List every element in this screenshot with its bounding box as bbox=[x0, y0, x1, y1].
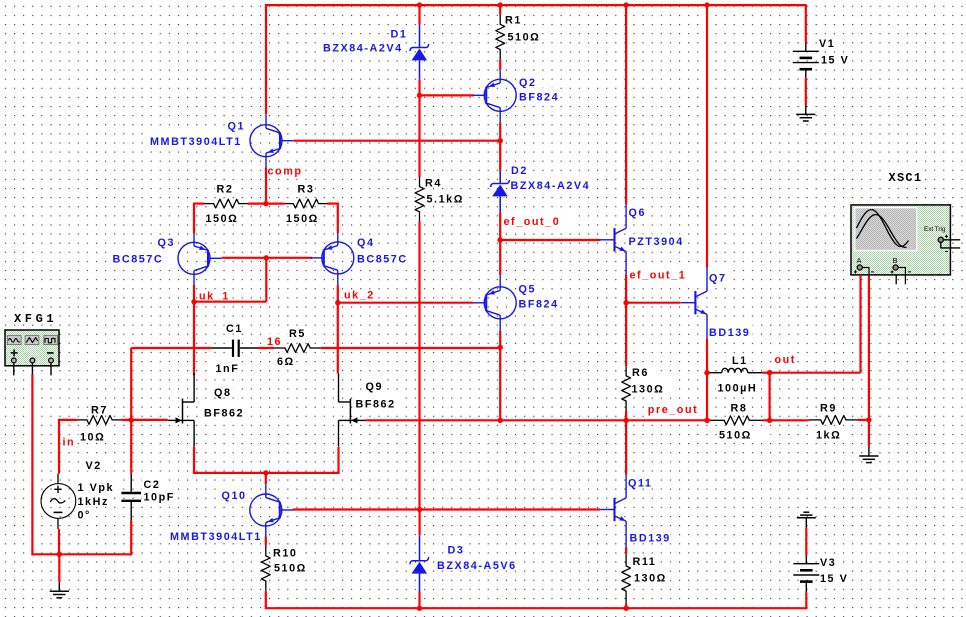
wire V3 minus to bottom rail corner bbox=[805, 592, 807, 609]
svg-text:R7: R7 bbox=[91, 404, 108, 416]
wire in: corner down to V2 plus bbox=[58, 419, 60, 474]
label MMBT3904LT1 bbox=[169, 529, 263, 544]
wire R2 left lead bbox=[194, 203, 205, 205]
svg-text:5.1kΩ: 5.1kΩ bbox=[427, 194, 464, 206]
label BC857C bbox=[111, 251, 177, 266]
wire Q7 emitter down through L1 tap to R8 junction bbox=[706, 339, 708, 421]
AC source V2 bbox=[41, 474, 76, 529]
zener diode D2 bbox=[491, 171, 510, 212]
wire R3 corner down to Q4 emitter bbox=[337, 203, 339, 234]
ground V1 bbox=[796, 105, 815, 121]
wire R9 right lead bbox=[858, 419, 869, 421]
label Q9 bbox=[364, 378, 385, 393]
wire Q10 emitter to R10 bbox=[265, 537, 267, 546]
junction ef_out_1/Q7 base bbox=[623, 300, 628, 305]
transistor Q7 bbox=[681, 268, 707, 339]
label Q4 bbox=[356, 236, 378, 250]
svg-text:C1: C1 bbox=[226, 323, 243, 335]
label XSC1 bbox=[886, 170, 925, 186]
wire R7 to Q8 gate bbox=[121, 419, 167, 421]
svg-text:510Ω: 510Ω bbox=[274, 562, 307, 574]
wire C2 bottom to ground rail bbox=[130, 521, 132, 556]
label Q6 bbox=[627, 205, 647, 219]
wire rail to V1 bbox=[805, 4, 807, 43]
label pre_out bbox=[646, 401, 702, 420]
label ef_out_1 bbox=[628, 269, 700, 287]
wire Q3 base to Q4 base bbox=[222, 257, 312, 259]
svg-text:uk_1: uk_1 bbox=[199, 290, 230, 302]
svg-text:Q1: Q1 bbox=[228, 120, 246, 132]
wire Q1 base to Q2 collector bbox=[294, 140, 501, 142]
wire R3 right lead bbox=[328, 203, 338, 205]
transistor Q2 bbox=[473, 70, 517, 122]
wire in corner to R7 bbox=[59, 419, 78, 421]
label BF824 bbox=[517, 295, 560, 310]
svg-text:ef_out_1: ef_out_1 bbox=[630, 269, 687, 281]
svg-text:PZT3904: PZT3904 bbox=[629, 236, 684, 248]
label in bbox=[61, 436, 75, 448]
resistor R5 bbox=[274, 344, 321, 353]
label 150Ω bbox=[285, 211, 323, 226]
svg-text:10Ω: 10Ω bbox=[80, 432, 105, 444]
label ef_out_0 bbox=[502, 213, 575, 232]
svg-text:BF824: BF824 bbox=[519, 92, 559, 104]
svg-text:100µH: 100µH bbox=[718, 383, 758, 395]
wire Q9 gate to pre_out row bbox=[365, 419, 711, 421]
label 130Ω bbox=[633, 570, 668, 584]
transistor Q6 bbox=[600, 205, 626, 275]
wire R8 right to R9 left (out riser junction) bbox=[763, 419, 809, 421]
wire ef_out_0: D2 anode to Q5 emitter bbox=[499, 212, 501, 275]
junction uk_1 bbox=[191, 299, 196, 304]
wire net 16 between C1 and R5 bbox=[258, 347, 275, 349]
wire ground stub bbox=[58, 554, 60, 582]
wire Q6 emitter ef_out_1 down to R6 bbox=[625, 274, 627, 366]
inductor L1 bbox=[707, 368, 762, 372]
junction rail/R1 bbox=[498, 2, 503, 7]
wire ef_out_1 to Q7 base bbox=[626, 302, 681, 304]
label 510Ω bbox=[273, 560, 309, 574]
function generator XFG1 bbox=[5, 330, 59, 375]
wire uk_2 to Q5 base bbox=[338, 302, 473, 304]
label D3 bbox=[446, 542, 468, 557]
svg-text:1kHz: 1kHz bbox=[78, 496, 109, 508]
svg-text:D1: D1 bbox=[391, 29, 408, 41]
junction rail/Q6 bbox=[623, 2, 628, 7]
svg-text:Ext Trig: Ext Trig bbox=[924, 226, 946, 233]
svg-text:Q5: Q5 bbox=[519, 284, 537, 296]
wire +15V top rail bbox=[265, 4, 806, 6]
resistor R11 bbox=[622, 554, 631, 604]
junction Q7 emitter/L1 bbox=[704, 370, 709, 375]
svg-text:A: A bbox=[857, 256, 862, 265]
label Q2 bbox=[518, 74, 539, 90]
wire V1 minus to ground bbox=[805, 78, 807, 105]
wire Q2 base bbox=[420, 94, 474, 96]
resistor R1 bbox=[496, 15, 505, 60]
junction rail/D1 bbox=[417, 2, 422, 7]
wire Q2 collector to D2 cathode bbox=[499, 122, 501, 171]
junction rail/Q7 bbox=[704, 2, 709, 7]
svg-text:BD139: BD139 bbox=[630, 532, 671, 544]
ground V3 (inverted) bbox=[797, 512, 816, 527]
label 6Ω bbox=[276, 354, 297, 368]
label Q1 bbox=[226, 117, 247, 132]
label 15 V bbox=[819, 569, 849, 586]
svg-text:Q2: Q2 bbox=[519, 77, 537, 89]
label 10Ω bbox=[79, 429, 107, 443]
svg-text:130Ω: 130Ω bbox=[632, 384, 665, 396]
svg-text:1kΩ: 1kΩ bbox=[816, 430, 841, 442]
svg-text:150Ω: 150Ω bbox=[206, 213, 239, 225]
svg-text:R5: R5 bbox=[289, 328, 306, 340]
junction Q3/Q4 bases bbox=[264, 255, 269, 260]
junction base row/D3 bbox=[417, 507, 422, 512]
wire Q9 source to tail bbox=[337, 447, 339, 474]
wire V2 minus to ground rail bbox=[58, 529, 60, 554]
label V2 bbox=[84, 457, 107, 472]
label R1 bbox=[504, 15, 522, 27]
label uk_1 bbox=[198, 290, 230, 305]
label BD139 bbox=[628, 530, 671, 544]
wire out riser to R8 right junction bbox=[768, 373, 770, 421]
transistor Q3 bbox=[178, 234, 222, 286]
resistor R7 bbox=[78, 416, 122, 425]
wire XFG1 common down bbox=[31, 375, 33, 556]
wire base-row junction to D3 cathode bbox=[419, 510, 421, 536]
svg-text:Q8: Q8 bbox=[214, 387, 232, 399]
label D1 bbox=[389, 27, 409, 41]
label R5 bbox=[288, 326, 308, 340]
wire out: L1 to scope riser bbox=[770, 372, 861, 374]
label R6 bbox=[631, 366, 656, 380]
capacitor C1 bbox=[212, 340, 258, 357]
wire node comp between R2 and R3 bbox=[248, 203, 284, 205]
label uk_2 bbox=[343, 289, 375, 304]
wire rail to Q7 collector bbox=[706, 4, 708, 268]
junction R8/R9/out riser bbox=[767, 418, 772, 423]
wire C2 top to R7 junction bbox=[130, 420, 132, 474]
svg-text:R10: R10 bbox=[273, 547, 297, 559]
label out bbox=[773, 353, 796, 367]
wire tail junction to Q10 collector bbox=[265, 473, 267, 484]
svg-text:V3: V3 bbox=[820, 557, 836, 569]
wire D1 anode to R4 top (node to Q2 base junction) bbox=[418, 79, 420, 177]
label 5.1kΩ bbox=[425, 193, 464, 206]
label R7 bbox=[90, 402, 110, 416]
label BD139 bbox=[708, 325, 753, 340]
svg-text:MMBT3904LT1: MMBT3904LT1 bbox=[150, 136, 242, 148]
label R4 bbox=[424, 177, 444, 190]
junction bottom rail/D3 bbox=[417, 606, 422, 611]
junction Q1 base bbox=[498, 138, 503, 143]
wire R10 to bottom rail corner bbox=[265, 591, 267, 609]
battery V3 bbox=[793, 555, 819, 592]
wire uk_2 Q4 collector down to Q9 drain bbox=[337, 285, 339, 373]
svg-text:B: B bbox=[893, 256, 898, 265]
label Q3 bbox=[156, 235, 178, 249]
junction R9/scope A- bbox=[866, 417, 871, 422]
label BF862 bbox=[203, 404, 249, 419]
wire R6 bottom to pre_out junction to Q11 collector bbox=[625, 411, 627, 475]
svg-text:ef_out_0: ef_out_0 bbox=[504, 216, 561, 228]
capacitor C2 bbox=[121, 474, 141, 521]
label 15 V bbox=[820, 53, 850, 66]
label C1 bbox=[225, 320, 245, 335]
battery V1 bbox=[793, 43, 819, 78]
oscilloscope XSC1 bbox=[851, 205, 960, 284]
resistor R8 bbox=[711, 416, 763, 425]
resistor R4 bbox=[415, 177, 424, 221]
junction uk_2 bbox=[335, 300, 340, 305]
svg-text:D3: D3 bbox=[448, 544, 465, 556]
svg-text:R9: R9 bbox=[820, 403, 837, 415]
junction bottom rail/R11 bbox=[623, 606, 628, 611]
wire R5 to Q5 collector junction bbox=[321, 347, 500, 349]
wire tail rail bbox=[194, 472, 339, 474]
svg-text:Q10: Q10 bbox=[222, 490, 247, 502]
svg-text:15 V: 15 V bbox=[820, 573, 848, 585]
wire uk_1 horizontal bbox=[194, 301, 266, 303]
label Q5 bbox=[517, 280, 539, 296]
label 100µH bbox=[716, 379, 760, 395]
wire scope A- down to R9/ground bbox=[868, 276, 870, 447]
svg-text:R3: R3 bbox=[298, 183, 315, 195]
svg-text:R6: R6 bbox=[632, 367, 649, 379]
wire R11 to bottom rail bbox=[625, 603, 627, 608]
label BZX84-A5V6 bbox=[436, 558, 522, 573]
transistor Q5 bbox=[473, 275, 517, 330]
label 1nF bbox=[214, 360, 240, 375]
svg-text:BF824: BF824 bbox=[519, 298, 559, 310]
svg-text:Q6: Q6 bbox=[629, 207, 647, 219]
transistor Q10 bbox=[250, 484, 294, 537]
resistor R3 bbox=[284, 199, 327, 208]
label BF862 bbox=[354, 396, 401, 411]
label R11 bbox=[631, 555, 657, 568]
label R8 bbox=[729, 401, 752, 415]
label R3 bbox=[296, 182, 315, 196]
svg-text:R4: R4 bbox=[425, 177, 442, 189]
label D2 bbox=[510, 164, 530, 177]
label BZX84-A2V4 bbox=[509, 176, 593, 192]
svg-text:1nF: 1nF bbox=[216, 363, 240, 375]
svg-text:XSC1: XSC1 bbox=[889, 171, 923, 185]
JFET Q8 bbox=[168, 373, 194, 446]
junction pre_out/R6 bbox=[623, 418, 628, 423]
junction pre_out/R8 bbox=[704, 418, 709, 423]
label R10 bbox=[272, 546, 299, 560]
wire uk_1 Q3 collector down to Q8 drain bbox=[193, 285, 195, 375]
label Q11 bbox=[627, 475, 654, 490]
wire rail to Q1 collector bbox=[265, 4, 267, 114]
label L1 bbox=[731, 354, 749, 367]
junction out/L1 bbox=[767, 370, 772, 375]
wire L1 right lead bbox=[762, 372, 769, 374]
svg-text:L1: L1 bbox=[732, 355, 748, 367]
svg-text:BC857C: BC857C bbox=[357, 254, 408, 266]
JFET Q9 bbox=[339, 373, 366, 446]
svg-text:BD139: BD139 bbox=[709, 327, 750, 339]
label Q7 bbox=[708, 270, 729, 285]
wire ground rail XFG1 to C2 bbox=[32, 553, 131, 555]
wire Q10 base to Q11 base bbox=[293, 508, 600, 510]
svg-text:10pF: 10pF bbox=[144, 491, 175, 503]
label 1 Vpk bbox=[76, 479, 116, 495]
svg-text:16: 16 bbox=[267, 336, 282, 348]
svg-text:BZX84-A2V4: BZX84-A2V4 bbox=[511, 180, 591, 192]
svg-text:V2: V2 bbox=[86, 460, 102, 472]
resistor R6 bbox=[622, 366, 631, 410]
svg-text:BZX84-A2V4: BZX84-A2V4 bbox=[323, 42, 403, 54]
wire rail to Q6 collector bbox=[625, 4, 627, 205]
wire R4 bottom long vertical to base-row junction bbox=[418, 221, 420, 509]
svg-text:pre_out: pre_out bbox=[648, 404, 698, 416]
label 10pF bbox=[142, 488, 177, 504]
wire Q5 collector down to gate row bbox=[499, 330, 501, 420]
svg-text:510Ω: 510Ω bbox=[508, 32, 541, 44]
resistor R2 bbox=[205, 199, 248, 208]
junction comp R2/R3 bbox=[263, 201, 268, 206]
label MMBT3904LT1 bbox=[149, 132, 248, 148]
zener diode D3 bbox=[410, 535, 429, 591]
wire rail to R1 bbox=[499, 4, 501, 15]
svg-text:130Ω: 130Ω bbox=[634, 572, 667, 584]
transistor Q11 bbox=[600, 475, 626, 548]
wire ef_out_0 to Q6 base bbox=[500, 239, 600, 241]
label C2 bbox=[142, 476, 162, 491]
svg-text:uk_2: uk_2 bbox=[344, 289, 375, 301]
label Q8 bbox=[213, 384, 234, 399]
svg-text:BF862: BF862 bbox=[356, 399, 396, 411]
junction Q2 base bbox=[417, 93, 422, 98]
junction tail/Q10 bbox=[263, 470, 268, 475]
svg-text:MMBT3904LT1: MMBT3904LT1 bbox=[170, 531, 262, 543]
svg-text:Q11: Q11 bbox=[628, 477, 652, 489]
label R2 bbox=[215, 182, 235, 196]
wire Q11 emitter to R11 bbox=[625, 548, 627, 554]
svg-text:comp: comp bbox=[268, 166, 303, 178]
svg-text:Q7: Q7 bbox=[709, 272, 727, 284]
svg-text:Q3: Q3 bbox=[158, 237, 176, 249]
label BC857C bbox=[356, 251, 423, 266]
label 130Ω bbox=[630, 379, 673, 396]
junction gate row/Q5 bbox=[498, 418, 503, 423]
wire rail to D1 cathode bbox=[418, 4, 420, 25]
resistor R10 bbox=[261, 546, 270, 592]
svg-text:in: in bbox=[63, 436, 76, 448]
svg-text:6Ω: 6Ω bbox=[277, 356, 295, 368]
wire base junction riser to uk_1 bbox=[265, 258, 267, 302]
wire scope A+ down to out bbox=[859, 276, 861, 373]
svg-text:Q9: Q9 bbox=[366, 381, 384, 393]
svg-text:1 Vpk: 1 Vpk bbox=[78, 482, 115, 494]
label 150Ω bbox=[204, 211, 242, 226]
label R9 bbox=[819, 401, 843, 415]
svg-text:Q4: Q4 bbox=[357, 237, 375, 249]
svg-text:R11: R11 bbox=[633, 556, 657, 568]
label Q10 bbox=[220, 488, 248, 502]
svg-text:BZX84-A5V6: BZX84-A5V6 bbox=[437, 560, 517, 572]
svg-text:150Ω: 150Ω bbox=[286, 213, 319, 225]
wire comp: Q1 emitter to R2/R3 junction bbox=[265, 168, 267, 204]
label 1kHz bbox=[76, 493, 111, 508]
label 1kΩ bbox=[815, 426, 849, 442]
junction ef_out_0 bbox=[498, 237, 503, 242]
label BF824 bbox=[518, 88, 560, 104]
svg-text:XFG1: XFG1 bbox=[14, 312, 57, 326]
wire riser node 16 row to R7 junction bbox=[130, 348, 132, 420]
wire -15V bottom rail bbox=[266, 607, 807, 609]
label BZX84-A2V4 bbox=[322, 42, 404, 54]
transistor Q1 bbox=[250, 114, 294, 167]
label PZT3904 bbox=[627, 234, 684, 248]
label comp bbox=[266, 165, 305, 179]
junction R7/C2/16 riser bbox=[129, 417, 134, 422]
svg-text:BF862: BF862 bbox=[204, 407, 244, 419]
label 510Ω bbox=[506, 29, 541, 44]
wire D3 anode to bottom rail bbox=[418, 592, 420, 609]
zener diode D1 bbox=[410, 25, 429, 79]
svg-text:V1: V1 bbox=[819, 38, 835, 50]
label 16 bbox=[266, 334, 283, 348]
label 510Ω bbox=[718, 426, 771, 442]
svg-text:BC857C: BC857C bbox=[113, 254, 164, 266]
svg-text:510Ω: 510Ω bbox=[719, 430, 752, 442]
svg-text:R8: R8 bbox=[731, 403, 748, 415]
label V1 bbox=[818, 37, 837, 50]
label 0° bbox=[76, 507, 94, 521]
wire R1 to Q2 emitter bbox=[499, 59, 501, 70]
svg-text:R2: R2 bbox=[217, 183, 234, 195]
resistor R9 bbox=[809, 416, 858, 425]
wire Q8 source to tail bbox=[193, 447, 195, 474]
ground left (V2/XFG1) bbox=[50, 582, 69, 598]
svg-text:15 V: 15 V bbox=[821, 54, 849, 66]
junction Q5 collector/16 row bbox=[498, 345, 503, 350]
svg-text:R1: R1 bbox=[505, 15, 522, 27]
wire R2 corner down to Q3 emitter bbox=[193, 203, 195, 234]
label XFG1 bbox=[11, 311, 57, 326]
ground right (scope A- / R9) bbox=[859, 447, 878, 463]
label V3 bbox=[819, 554, 841, 569]
wire 16-row: riser corner to C1 bbox=[131, 347, 212, 349]
junction ground rail/V2 bbox=[57, 552, 62, 557]
wire V3 ground lead bbox=[805, 527, 807, 555]
svg-text:out: out bbox=[775, 354, 796, 366]
transistor Q4 bbox=[310, 233, 354, 285]
svg-text:D2: D2 bbox=[511, 165, 528, 177]
svg-text:0°: 0° bbox=[78, 510, 91, 522]
